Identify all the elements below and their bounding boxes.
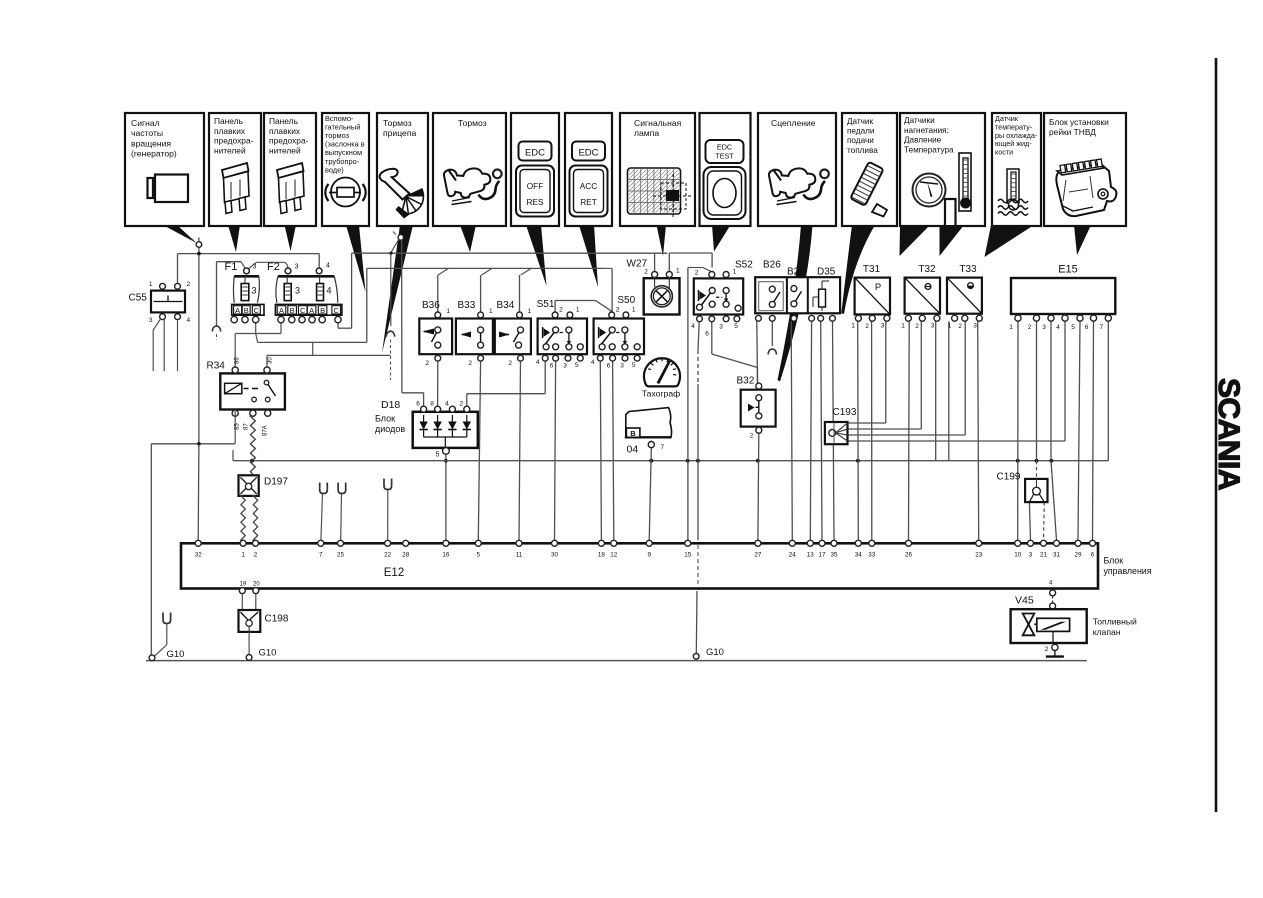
svg-text:EDC: EDC (525, 148, 545, 159)
svg-text:Сигнал: Сигнал (131, 118, 160, 128)
svg-text:воде): воде) (325, 165, 344, 174)
blade fuse icon 2 (277, 163, 304, 178)
svg-text:34: 34 (855, 552, 863, 559)
svg-text:частоты: частоты (131, 128, 163, 138)
wire: C55 pin2 riser (177, 254, 179, 284)
wire: T31 pin1 down to E12 pin 34 (857, 321, 860, 540)
bus junction dots (250, 459, 254, 463)
svg-text:EDC: EDC (578, 148, 598, 159)
E12 pin 17 (819, 540, 825, 546)
warning lamp display icon (628, 168, 681, 214)
svg-text:D197: D197 (264, 477, 288, 488)
svg-text:31: 31 (1053, 552, 1061, 559)
E12 pin 15 (685, 540, 691, 546)
svg-text:22: 22 (384, 552, 392, 559)
wire: T32 pin2 to C193 (920, 321, 922, 429)
svg-text:3: 3 (931, 323, 935, 330)
svg-text:Давление: Давление (904, 136, 942, 145)
accelerator pedal icon (850, 162, 883, 206)
wire: W27 pin1 riser and link to S52 (668, 253, 670, 272)
wire: B25 down to E12 pin 24 (791, 321, 792, 540)
E12 pin 28 (403, 540, 409, 546)
svg-text:2: 2 (187, 281, 191, 288)
E12 pin 25 (338, 540, 344, 546)
pressure gauge icon (913, 174, 946, 207)
svg-text:10: 10 (1014, 552, 1022, 559)
svg-text:B26: B26 (763, 260, 781, 271)
wire: E15 pin6 down to E12 pin 6 (1093, 321, 1094, 540)
bus B diagonal tap at x=519.5 (521, 268, 532, 275)
screened wire from R34 pin 87 to D197 (251, 416, 256, 475)
svg-text:B32: B32 (737, 376, 755, 387)
E12 pin 23 (976, 540, 982, 546)
svg-text:2: 2 (750, 433, 754, 440)
pointer wedge from EDC ACC RET box (579, 225, 598, 287)
wire: E15 pin2 to C199 and E12 (1036, 321, 1038, 461)
wire: B32 bottom to E12 pin 27 (757, 433, 760, 540)
S52 pin6 diagonal stub (711, 322, 713, 324)
wire: node B diagonal to wire A and stub drop (391, 240, 399, 253)
svg-text:1: 1 (149, 281, 153, 288)
E12 pin 3 (1028, 540, 1034, 546)
svg-text:C: C (254, 306, 260, 315)
svg-text:4: 4 (445, 401, 449, 408)
svg-text:8: 8 (430, 401, 434, 408)
bus B diagonal tap at x=437.8 (438, 268, 449, 275)
svg-text:4: 4 (326, 263, 330, 270)
svg-text:V45: V45 (1015, 595, 1034, 607)
svg-text:E12: E12 (384, 567, 404, 579)
ground G10 left (149, 655, 155, 661)
E12 dashed screen line inside box (697, 545, 699, 587)
svg-text:C: C (300, 306, 306, 315)
notch in box bottom edge (946, 224, 955, 227)
svg-text:6: 6 (705, 331, 709, 338)
svg-text:Датчик: Датчик (847, 117, 874, 126)
svg-text:нителей: нителей (214, 145, 246, 155)
legend box: EDC TEST switch (700, 113, 751, 226)
wire: D35 pin3 down to E12 pin 35 (833, 321, 835, 540)
svg-text:86: 86 (235, 357, 241, 364)
ground G10 mid-left (C198) (246, 655, 252, 661)
C55 stub wires (153, 319, 160, 330)
svg-text:Тормоз: Тормоз (383, 118, 412, 128)
connector stub symbol below F1 bracket (212, 326, 220, 332)
svg-text:3: 3 (620, 363, 624, 370)
pointer wedge from coolant temp box (985, 225, 1035, 257)
wire: F1 output A to y333 bus (255, 323, 257, 334)
wire: C199 legs to E12 pins 3 and 21 (1029, 502, 1030, 540)
wire: T32 pin1 down to E12 pin 26 (908, 321, 911, 540)
svg-text:B25: B25 (787, 267, 805, 278)
svg-text:RET: RET (580, 197, 597, 207)
svg-text:3: 3 (252, 286, 257, 296)
injection pump unit icon (1056, 165, 1116, 216)
svg-text:2: 2 (425, 360, 429, 367)
D18 diodes (423, 415, 425, 422)
svg-text:5: 5 (477, 552, 481, 559)
wire: left ground drop to G10 (150, 444, 152, 656)
SCANIA separator line (1215, 58, 1218, 812)
svg-text:Тахограф: Тахограф (642, 389, 680, 399)
svg-text:2: 2 (559, 307, 563, 314)
E12 pin 5 (475, 540, 481, 546)
pointer wedge from boost sensors box (temperature) (940, 225, 965, 256)
legend box: Панель плавких предохранителей (F2) (264, 113, 316, 226)
wire: E15 pin1 down to E12 pin 10 (1017, 321, 1019, 540)
F2 ABC terminal strip (275, 304, 342, 315)
svg-text:17: 17 (818, 552, 826, 559)
control unit E12 (181, 543, 1098, 588)
pointer wedge from boost sensors box (pressure) (900, 225, 931, 256)
wire A: long feed line to W27 (352, 252, 668, 254)
svg-text:6: 6 (416, 401, 420, 408)
tachograph gauge (644, 358, 680, 386)
wire: D18 pin2 riser link to S51 pin4 (466, 394, 468, 407)
pointer wedge from generator box (163, 225, 197, 243)
svg-text:D35: D35 (817, 267, 836, 278)
pointer wedge from EDC TEST box (712, 225, 731, 252)
svg-text:вращения: вращения (131, 138, 171, 148)
legend box: Тормоз прицепа (377, 113, 428, 226)
svg-text:1: 1 (632, 307, 636, 314)
svg-text:Блок: Блок (1104, 556, 1124, 566)
svg-text:2: 2 (254, 552, 258, 559)
pointer wedge from EDC OFF RES box (526, 225, 547, 286)
tachograph connector 04 (626, 408, 672, 438)
svg-text:3: 3 (295, 286, 300, 296)
svg-text:TEST: TEST (715, 152, 734, 161)
svg-text:2: 2 (695, 270, 699, 277)
wire: R34 pin30 riser to y355 line (266, 355, 268, 367)
svg-text:1: 1 (1009, 324, 1013, 331)
wire: D18 pin5 down to E12 pin 16 (445, 454, 447, 541)
liquid waves (998, 199, 1028, 203)
svg-text:5: 5 (1071, 324, 1075, 331)
wire: S52 pin6 diagonal to B32 top (711, 322, 713, 354)
svg-text:3: 3 (719, 324, 723, 331)
svg-text:4: 4 (1056, 324, 1060, 331)
legend box: EDC OFF RES switch (511, 113, 559, 226)
dashed crosshair with EDC cell (653, 174, 693, 218)
E12 pin 24 (789, 540, 795, 546)
svg-text:2: 2 (616, 307, 620, 314)
pointer wedge from fuse panel box F2 (285, 225, 297, 251)
svg-text:2: 2 (459, 401, 463, 408)
svg-text:управления: управления (1104, 566, 1152, 576)
connector C198 (239, 610, 261, 632)
svg-text:рейки ТНВД: рейки ТНВД (1049, 127, 1096, 137)
svg-text:1: 1 (948, 323, 952, 330)
wire: E15 pin7 down to bus right corner (1107, 321, 1109, 461)
svg-text:1: 1 (676, 268, 680, 275)
wire: fuse output to bus B riser (366, 268, 368, 342)
svg-text:F2: F2 (267, 261, 280, 273)
svg-text:T33: T33 (959, 264, 977, 275)
svg-text:9: 9 (647, 552, 651, 559)
svg-text:2: 2 (1028, 324, 1032, 331)
svg-text:27: 27 (754, 552, 762, 559)
svg-text:3: 3 (881, 323, 885, 330)
svg-text:16: 16 (442, 552, 450, 559)
svg-text:87A: 87A (263, 425, 269, 436)
E12 pin 34 (855, 540, 861, 546)
E12 pin 10 (1015, 540, 1021, 546)
U plug stubs above E12 (320, 483, 328, 494)
svg-text:Сцепление: Сцепление (771, 118, 816, 128)
legend box: Сигнал частоты вращения (генератор) (125, 113, 204, 226)
svg-text:P: P (875, 282, 881, 293)
svg-text:E15: E15 (1058, 264, 1078, 276)
svg-text:1: 1 (851, 323, 855, 330)
svg-text:G10: G10 (259, 648, 277, 659)
svg-text:2: 2 (958, 323, 962, 330)
svg-text:7: 7 (1099, 324, 1103, 331)
svg-text:15: 15 (684, 552, 692, 559)
wire: B36 pin2 to D18 pin 8 (437, 362, 439, 407)
curved pointer wedge from fuel pedal box (841, 225, 875, 314)
svg-text:87: 87 (244, 423, 250, 430)
pointer wedge from pump rack box (1074, 225, 1091, 255)
wire: S50 pin4 down to E12 pin 18 (600, 361, 601, 540)
svg-text:B: B (290, 306, 295, 315)
svg-text:12: 12 (610, 552, 618, 559)
svg-text:4: 4 (591, 359, 595, 366)
svg-text:OFF: OFF (527, 181, 544, 191)
pointer wedge from warning lamp box (657, 225, 667, 256)
svg-text:1: 1 (447, 308, 451, 315)
E12 pin 32 (195, 540, 201, 546)
svg-text:6: 6 (1091, 552, 1095, 559)
svg-text:Панель: Панель (269, 116, 299, 126)
svg-text:Топливный: Топливный (1093, 617, 1137, 627)
svg-text:3: 3 (563, 363, 567, 370)
svg-text:B: B (630, 429, 636, 438)
svg-text:25: 25 (337, 552, 345, 559)
svg-text:EDC: EDC (717, 143, 732, 152)
group bottom pins (756, 315, 762, 321)
bus B right corner into S50 pin2 (604, 267, 612, 269)
svg-text:A: A (309, 306, 314, 315)
wire: 04 connector pin7 down to E12 pin 9 (649, 448, 651, 541)
svg-text:2: 2 (1045, 646, 1049, 653)
diode connector D197 (239, 475, 259, 496)
svg-text:6: 6 (550, 363, 554, 370)
E12 pin 12 (611, 540, 617, 546)
legend box: Блок установки рейки ТНВД (1044, 113, 1126, 226)
svg-text:30: 30 (268, 357, 274, 364)
pointer wedge from fuse panel box F1 (228, 225, 240, 252)
wire: E15 pin3 down to E12 pin 31 (1050, 321, 1052, 461)
E12 pin 18 (598, 540, 604, 546)
wire: S51 pin2 link to S50 pin2 (554, 301, 556, 312)
node B: below trailer brake box (398, 235, 404, 241)
clutch pedal icon (769, 168, 815, 197)
svg-text:B: B (320, 306, 325, 315)
node A: junction below generator pointer (198, 238, 200, 445)
svg-text:5: 5 (575, 362, 579, 369)
svg-text:5: 5 (734, 323, 738, 330)
svg-text:2: 2 (915, 323, 919, 330)
D35 wire passing through C193 (833, 422, 835, 444)
svg-text:3: 3 (295, 264, 299, 271)
wire: B26 pin1 down to B32 top (756, 321, 759, 383)
wire: B34 pin2 down to E12 pin 11 (519, 361, 521, 540)
F1 ABC terminal strip (232, 304, 264, 315)
B26 clutch switch contacts (759, 282, 784, 311)
svg-text:19: 19 (240, 581, 247, 587)
svg-text:ACC: ACC (580, 181, 598, 191)
B25 clutch switch contacts (791, 286, 797, 292)
wire: R34 pin86 riser (234, 334, 236, 368)
wire: F2 output C to wire A riser (337, 323, 339, 328)
svg-text:4: 4 (187, 317, 191, 324)
E12 pin 6 (1090, 540, 1096, 546)
V45 coil box with diagonal (1037, 618, 1070, 631)
E12 pin 30 (552, 540, 558, 546)
E12 pin 16 (443, 540, 449, 546)
legend box: Датчик педали подачи топлива (842, 113, 897, 226)
svg-text:Сигнальная: Сигнальная (634, 118, 682, 128)
svg-text:C: C (333, 306, 339, 315)
wire: B33 pin2 down to E12 pin 5 (478, 362, 480, 541)
svg-text:18: 18 (598, 552, 606, 559)
svg-text:1: 1 (733, 269, 737, 276)
wire: S52 pin4 down to mid G10 (dashed through E12) (698, 322, 699, 350)
wire: D35 pin1 down to E12 pin 13 (810, 321, 811, 540)
blade fuse icon (222, 163, 249, 178)
thermometer icon (pressure box) (959, 153, 971, 211)
wire: D35 pin2 down to E12 pin 17 (821, 321, 822, 540)
svg-text:4: 4 (327, 286, 332, 296)
ground G10 middle (693, 653, 699, 659)
svg-text:2: 2 (644, 269, 648, 276)
svg-text:13: 13 (807, 552, 815, 559)
svg-text:5: 5 (436, 452, 440, 459)
E12 pin 1 (240, 540, 246, 546)
wire: T31 pin2 down to E12 pin 33 (871, 321, 873, 540)
svg-text:1: 1 (489, 308, 493, 315)
svg-text:3: 3 (973, 323, 977, 330)
svg-text:плавких: плавких (269, 126, 301, 136)
wire: F1 feed bracket with connector stub (216, 262, 218, 326)
svg-text:педали: педали (847, 127, 875, 136)
curved pointer wedge from clutch box (778, 225, 813, 382)
svg-text:G10: G10 (706, 647, 724, 658)
svg-text:S50: S50 (617, 295, 635, 306)
svg-text:S52: S52 (735, 260, 753, 271)
svg-text:Блок установки: Блок установки (1049, 117, 1109, 127)
svg-text:3: 3 (149, 317, 153, 324)
svg-text:нителей: нителей (269, 145, 301, 155)
svg-text:C199: C199 (997, 472, 1021, 483)
wire: node B column to D18 pin 6 (401, 240, 403, 393)
E12 pin 7 (318, 540, 324, 546)
legend box: Датчик температуры охлаждающей жидкости (992, 113, 1041, 226)
svg-text:прицепа: прицепа (383, 128, 416, 138)
svg-text:5: 5 (632, 362, 636, 369)
wire: T33 pin2 to C193 (964, 321, 966, 435)
svg-text:2: 2 (468, 360, 472, 367)
legend box: Датчики нагнетания: Давление Температура (900, 113, 985, 226)
svg-text:4: 4 (536, 359, 540, 366)
trailer brake hand lever icon (380, 169, 410, 200)
ground bus at bottom (146, 660, 1087, 662)
R34 switch contacts (264, 380, 269, 385)
E12 pin 29 (1075, 540, 1081, 546)
svg-text:24: 24 (789, 552, 797, 559)
svg-text:Датчики: Датчики (904, 116, 935, 125)
R34 coil (225, 383, 242, 393)
E12 pin 33 (869, 540, 875, 546)
wire: S50 pin6 down to E12 pin 12 (613, 361, 614, 540)
screened wires from D197 to E12 pins 1 2 (241, 496, 245, 540)
pointer wedge from brake box (460, 225, 476, 252)
svg-text:4: 4 (691, 323, 695, 330)
svg-text:21: 21 (1040, 552, 1048, 559)
svg-text:B34: B34 (497, 300, 515, 311)
wire: F1 C drop to y342 bus (256, 334, 258, 343)
svg-text:3: 3 (1042, 324, 1046, 331)
svg-text:26: 26 (905, 552, 913, 559)
svg-text:7: 7 (661, 444, 665, 451)
svg-text:предохра-: предохра- (214, 136, 254, 146)
svg-text:диодов: диодов (375, 424, 405, 434)
legend box: Вспомогательный тормоз (322, 113, 369, 226)
svg-text:подачи: подачи (847, 136, 874, 145)
svg-text:кости: кости (995, 148, 1013, 157)
wire: node column down to E12 pin 32 (197, 445, 200, 541)
svg-text:T31: T31 (863, 264, 881, 275)
svg-text:1: 1 (901, 323, 905, 330)
svg-text:плавких: плавких (214, 126, 246, 136)
wire: T32 pin3 down to bus (935, 321, 937, 461)
svg-text:1: 1 (576, 307, 580, 314)
C198 wire to ground G10 (248, 632, 250, 655)
connector stub below trailer-brake node (386, 331, 394, 336)
svg-text:топлива: топлива (847, 146, 878, 155)
svg-text:04: 04 (627, 444, 639, 456)
wire: E15 pin5 down to E12 pin 29 (1078, 321, 1080, 540)
svg-text:33: 33 (868, 552, 876, 559)
svg-text:6: 6 (1085, 324, 1089, 331)
svg-text:B33: B33 (458, 300, 476, 311)
svg-text:3: 3 (1029, 552, 1033, 559)
brake pedal icon (444, 168, 490, 197)
legend box: Сигнальная лампа (620, 113, 695, 226)
E12 pin 31 (1054, 540, 1060, 546)
E12 pin 35 (831, 540, 837, 546)
svg-text:A: A (235, 306, 240, 315)
E12 pin 11 (516, 540, 522, 546)
generator icon (155, 175, 188, 203)
svg-text:лампа: лампа (634, 128, 659, 138)
V45 solenoid valve bowtie (1023, 614, 1035, 625)
svg-text:R34: R34 (207, 361, 226, 372)
svg-text:клапан: клапан (1093, 627, 1121, 637)
svg-text:6: 6 (607, 363, 611, 370)
svg-text:23: 23 (975, 552, 983, 559)
svg-text:Блок: Блок (375, 414, 395, 424)
wire: E15 pin4 to C193 (1064, 321, 1066, 441)
pointer wedge from aux brake box (346, 225, 366, 292)
legend box: Тормоз (433, 113, 506, 226)
svg-text:3: 3 (253, 264, 257, 271)
svg-text:B: B (244, 306, 249, 315)
V45 ground symbol (1054, 651, 1056, 657)
wire: horizontal to R34 pin 85 (151, 443, 235, 445)
E12 pin 22 (385, 540, 391, 546)
